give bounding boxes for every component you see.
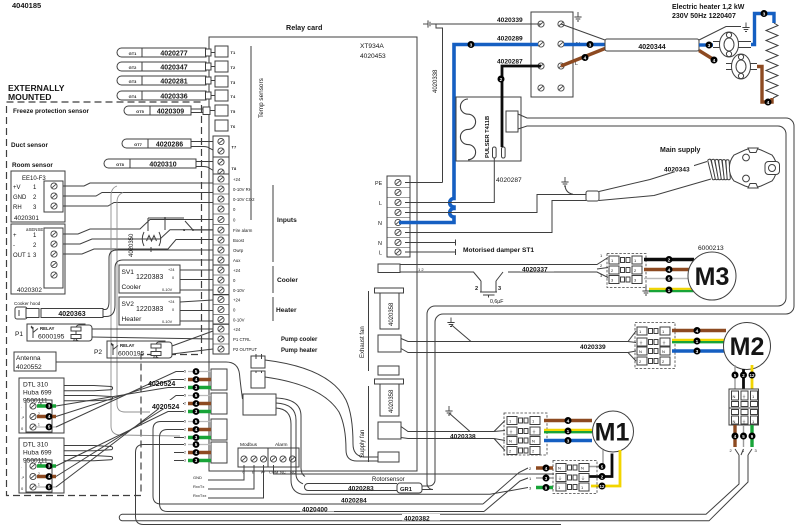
- svg-text:Cooker hood: Cooker hood: [14, 301, 41, 306]
- spare connector supply: [378, 452, 399, 462]
- svg-text:1220383: 1220383: [136, 274, 163, 281]
- temp sensor GT3: [117, 76, 206, 85]
- svg-text:4020336: 4020336: [160, 93, 187, 100]
- svg-text:4: 4: [195, 401, 198, 406]
- rotor connector GR1 on card: [243, 394, 276, 415]
- cable 4020344: [538, 24, 605, 66]
- svg-text:DTL 310: DTL 310: [23, 442, 48, 449]
- cable 4020358 supply: [375, 379, 404, 384]
- M2 motor circle: [724, 323, 771, 370]
- pressure input connector C4: [211, 442, 227, 463]
- svg-text:+24: +24: [168, 300, 174, 304]
- svg-text:Pump heater: Pump heater: [281, 348, 318, 354]
- svg-text:4020338: 4020338: [433, 69, 439, 93]
- svg-text:GR1: GR1: [400, 487, 413, 493]
- svg-text:P2 OUTPUT: P2 OUTPUT: [233, 347, 257, 352]
- svg-text:GT8: GT8: [116, 162, 125, 167]
- wire aSENSE 2: [63, 230, 213, 244]
- svg-text:⏚: ⏚: [742, 393, 746, 399]
- harness 4020524 DTL1 to C1: [146, 377, 179, 386]
- svg-text:4020309: 4020309: [157, 108, 184, 115]
- svg-text:3: 3: [48, 464, 51, 469]
- harness 4020524 DTL2 to C2: [56, 396, 184, 488]
- M2 rotor wires down: [734, 365, 736, 389]
- svg-text:4: 4: [48, 414, 51, 419]
- pressure input connector C1: [211, 369, 227, 390]
- temp sensor GT2: [117, 62, 206, 71]
- cable 4020400: [300, 505, 334, 512]
- svg-text:SV2: SV2: [122, 301, 135, 308]
- alarm wire to M1 sensor connector: [274, 465, 555, 474]
- svg-text:0: 0: [172, 308, 174, 312]
- pulser cable loop to GR1 plug: [422, 114, 794, 486]
- svg-text:3: 3: [589, 43, 592, 49]
- svg-text:Room sensor: Room sensor: [12, 162, 53, 169]
- svg-text:Pump cooler: Pump cooler: [281, 337, 318, 343]
- svg-text:N: N: [662, 349, 665, 354]
- svg-text:3: 3: [498, 286, 501, 292]
- pulser pins: [493, 147, 497, 158]
- svg-text:230V 50Hz 1220407: 230V 50Hz 1220407: [672, 13, 736, 20]
- svg-text:Supply fan: Supply fan: [360, 430, 366, 458]
- M3 motor circle: [688, 252, 736, 300]
- harness verticals: [111, 186, 180, 436]
- black cable 4020287: [502, 66, 541, 147]
- svg-text:T4: T4: [231, 94, 236, 99]
- svg-text:0-10V CO2: 0-10V CO2: [233, 197, 255, 202]
- heating element: [766, 23, 778, 98]
- heater supply terminal block: [531, 12, 573, 97]
- svg-text:3: 3: [184, 459, 186, 463]
- svg-text:2: 2: [184, 378, 186, 382]
- exhaust fan cable 4020339: [401, 331, 636, 361]
- svg-text:4: 4: [696, 329, 699, 335]
- svg-text:1 2: 1 2: [418, 267, 424, 272]
- svg-text:2: 2: [475, 286, 478, 292]
- svg-text:-: -: [13, 243, 15, 249]
- pulser left pin wire to L: [405, 158, 494, 203]
- svg-text:⏚: ⏚: [742, 418, 746, 424]
- svg-text:3: 3: [184, 386, 186, 390]
- svg-text:3: 3: [48, 404, 51, 409]
- supply fan cable 4020338: [401, 421, 505, 451]
- relay card: [209, 37, 417, 471]
- pressure input connector C2: [211, 393, 227, 414]
- svg-text:Electric heater 1,2 kW: Electric heater 1,2 kW: [672, 4, 745, 11]
- svg-text:2: 2: [184, 451, 186, 455]
- ground supply cable: [445, 406, 452, 415]
- pressure input connector C3: [211, 419, 227, 440]
- svg-text:2: 2: [184, 428, 186, 432]
- heater bracket: [272, 297, 274, 321]
- prongs to 4020382: [735, 449, 752, 455]
- svg-text:RELAY: RELAY: [120, 343, 135, 348]
- svg-text:5: 5: [48, 485, 51, 490]
- svg-text:0-10V: 0-10V: [233, 288, 245, 293]
- svg-text:Huba 699: Huba 699: [23, 450, 52, 457]
- svg-text:1: 1: [38, 423, 40, 427]
- temp sensors bracket: [250, 46, 252, 130]
- svg-text:2: 2: [668, 258, 671, 264]
- svg-text:4: 4: [584, 56, 587, 62]
- svg-text:GT3: GT3: [129, 79, 138, 84]
- svg-text:2: 2: [500, 77, 503, 83]
- svg-text:12: 12: [600, 484, 605, 489]
- svg-text:4020277: 4020277: [160, 50, 187, 57]
- pressure sensor DTL 1: [19, 378, 64, 433]
- svg-text:+24: +24: [233, 327, 241, 332]
- svg-text:5: 5: [195, 442, 198, 447]
- svg-text:M1: M1: [595, 419, 630, 447]
- solenoid SV1 cooler: [119, 265, 180, 293]
- svg-text:N: N: [558, 466, 561, 471]
- M2 colored wires: [672, 329, 726, 333]
- svg-text:N: N: [639, 349, 642, 354]
- svg-text:4020524: 4020524: [152, 404, 179, 411]
- svg-text:Alarm: Alarm: [275, 442, 288, 448]
- svg-text:5: 5: [668, 277, 671, 283]
- svg-text:SV1: SV1: [122, 269, 135, 276]
- svg-text:Inputs: Inputs: [277, 217, 297, 224]
- svg-text:3: 3: [184, 436, 186, 440]
- svg-text:5: 5: [184, 394, 186, 398]
- svg-text:RxxTx: RxxTx: [193, 484, 204, 489]
- svg-text:1: 1: [696, 339, 699, 345]
- svg-text:XT934A: XT934A: [360, 43, 384, 50]
- supply fan bracket: [368, 386, 370, 462]
- svg-text:+24: +24: [233, 177, 241, 182]
- cable 4020283: [305, 484, 397, 491]
- svg-text:P1: P1: [15, 331, 23, 338]
- svg-text:GND: GND: [193, 475, 202, 480]
- svg-text:5: 5: [184, 370, 186, 374]
- svg-text:Freeze protection sensor: Freeze protection sensor: [13, 108, 90, 115]
- svg-text:↗: ↗: [21, 415, 24, 420]
- temp sensor GT5: [124, 106, 191, 115]
- svg-text:Duct sensor: Duct sensor: [11, 142, 48, 149]
- svg-text:Boost: Boost: [233, 238, 245, 243]
- svg-text:4: 4: [567, 419, 570, 425]
- svg-text:4020284: 4020284: [341, 498, 367, 505]
- svg-text:4: 4: [668, 268, 671, 274]
- cooler bracket: [272, 266, 274, 293]
- wires out of 4020344: [699, 27, 741, 41]
- svg-text:T6: T6: [231, 124, 236, 129]
- blue wire to element top: [751, 14, 774, 45]
- svg-text:GT7: GT7: [134, 142, 143, 147]
- svg-text:4020287: 4020287: [497, 59, 523, 66]
- svg-text:9500111: 9500111: [23, 458, 48, 465]
- svg-text:4020358: 4020358: [389, 302, 395, 326]
- svg-text:+24: +24: [168, 268, 174, 272]
- svg-text:4020339: 4020339: [580, 344, 606, 351]
- svg-text:4020343: 4020343: [664, 167, 690, 174]
- screw terminal strip T7,T8 and inputs: [213, 136, 229, 157]
- svg-text:0-10V: 0-10V: [162, 320, 173, 324]
- modbus pigtails GND/RxTx: [207, 465, 264, 498]
- svg-text:4020289: 4020289: [497, 36, 523, 43]
- svg-text:Modbus: Modbus: [240, 442, 258, 448]
- svg-text:Owrp: Owrp: [233, 248, 244, 253]
- svg-text:DTL 310: DTL 310: [23, 382, 48, 389]
- pump output connectors: [251, 356, 265, 368]
- svg-text:4020400: 4020400: [302, 507, 328, 514]
- thermostat 1: [713, 42, 751, 48]
- cable to plug: [599, 162, 711, 201]
- PE L N terminal block: [387, 176, 410, 257]
- svg-text:Huba 699: Huba 699: [23, 390, 52, 397]
- svg-text:4: 4: [195, 377, 198, 382]
- svg-text:4020358: 4020358: [389, 389, 395, 413]
- fire alarm switch: [185, 221, 214, 231]
- svg-text:4020453: 4020453: [360, 53, 386, 60]
- svg-text:5: 5: [195, 369, 198, 374]
- svg-text:1: 1: [668, 288, 671, 294]
- M3 wires: [644, 258, 694, 261]
- svg-text:⏚: ⏚: [662, 339, 666, 345]
- svg-text:GT4: GT4: [129, 94, 138, 99]
- M1 motor circle: [593, 411, 634, 452]
- svg-text:⏚: ⏚: [581, 475, 585, 481]
- svg-text:3: 3: [195, 409, 198, 414]
- svg-text:1: 1: [38, 483, 40, 487]
- svg-text:4: 4: [767, 100, 770, 106]
- plug GR1: [397, 483, 422, 493]
- svg-text:.: .: [21, 464, 22, 469]
- aSENSE CO2 sensor: [11, 224, 65, 294]
- svg-text:4020344: 4020344: [638, 44, 665, 51]
- wire GT3-T3: [206, 80, 215, 82]
- svg-text:4020286: 4020286: [156, 141, 183, 148]
- damper motor connector: [607, 254, 646, 288]
- svg-text:3: 3: [470, 43, 473, 49]
- wiring around fire alarm: [148, 218, 184, 252]
- svg-text:6000195: 6000195: [38, 334, 65, 341]
- svg-text:Heater: Heater: [122, 316, 143, 323]
- svg-text:4020283: 4020283: [348, 486, 374, 493]
- svg-text:3: 3: [763, 12, 766, 18]
- svg-text:4: 4: [48, 474, 51, 479]
- brown wire to element bottom: [757, 67, 772, 103]
- pressure sensor DTL 2: [19, 438, 64, 493]
- svg-text:4020337: 4020337: [522, 267, 548, 274]
- svg-text:Relay card: Relay card: [286, 23, 322, 32]
- antenna box: [14, 352, 56, 371]
- svg-text:0: 0: [172, 276, 174, 280]
- svg-text:Rotorsensor: Rotorsensor: [372, 477, 405, 483]
- wire 4020284: [309, 488, 528, 495]
- wires to pump connectors: [256, 354, 262, 373]
- terminal squares T1-T6: [215, 46, 228, 57]
- svg-text:M3: M3: [695, 263, 730, 291]
- blue neutral wire 4020289: [399, 45, 538, 223]
- svg-text:3: 3: [195, 435, 198, 440]
- cable 4020358 exhaust: [375, 288, 404, 293]
- svg-text:Cooler: Cooler: [277, 277, 298, 284]
- main supply cable wires to block: [405, 195, 586, 213]
- ground symbol top: [423, 20, 432, 27]
- svg-text:N: N: [581, 466, 584, 471]
- svg-text:4040185: 4040185: [12, 1, 41, 10]
- svg-text:Main supply: Main supply: [660, 147, 701, 154]
- svg-text:MOUNTED: MOUNTED: [8, 92, 51, 102]
- svg-text:T5: T5: [231, 109, 236, 114]
- svg-text:⏚: ⏚: [509, 428, 513, 434]
- svg-text:4020338: 4020338: [450, 433, 476, 440]
- svg-text:T2: T2: [231, 65, 236, 70]
- svg-text:T3: T3: [231, 80, 236, 85]
- svg-text:⏚: ⏚: [639, 339, 643, 345]
- svg-text:T8: T8: [232, 166, 237, 171]
- temp sensor GT8: [104, 159, 196, 168]
- wires SV1: [180, 270, 213, 290]
- svg-text:+24: +24: [233, 268, 241, 273]
- svg-text:4020301: 4020301: [14, 215, 39, 222]
- svg-text:3: 3: [184, 410, 186, 414]
- svg-text:N: N: [378, 241, 382, 247]
- thermostat wavy symbol: [142, 232, 161, 246]
- svg-text:N: N: [532, 439, 535, 444]
- temp sensor GT7: [122, 139, 191, 148]
- rotor sensor PULSER T411B: [456, 97, 521, 161]
- svg-text:9500111: 9500111: [23, 398, 48, 405]
- svg-text:+V: +V: [13, 185, 21, 191]
- svg-text:5: 5: [184, 443, 186, 447]
- svg-text:Cooler: Cooler: [122, 284, 142, 291]
- svg-text:0-10V: 0-10V: [233, 317, 245, 322]
- wires P1: [92, 329, 213, 339]
- svg-text:↗: ↗: [21, 475, 24, 480]
- svg-text:EE10-F3: EE10-F3: [22, 176, 46, 182]
- wires GR1 to rotorsensor cable: [276, 398, 309, 494]
- svg-text:4020281: 4020281: [160, 78, 187, 85]
- supply fan connector: [378, 422, 401, 439]
- pump cables curving to supply area: [265, 360, 378, 461]
- wires P2: [172, 331, 213, 354]
- svg-text:T7: T7: [232, 145, 237, 150]
- svg-text:GT1: GT1: [129, 51, 138, 56]
- svg-text:T1: T1: [231, 50, 236, 55]
- inputs bracket: [272, 185, 274, 262]
- svg-text:3: 3: [567, 439, 570, 445]
- risers to M1 sensor plug: [483, 468, 528, 512]
- svg-text:12: 12: [750, 373, 755, 378]
- svg-text:PE: PE: [375, 181, 383, 187]
- svg-text:+: +: [13, 233, 17, 239]
- wire EE10 +V to +24: [63, 183, 213, 186]
- ground exhaust cable: [447, 318, 454, 327]
- wire GT4-T4: [206, 95, 215, 97]
- solenoid SV2 heater: [119, 297, 180, 325]
- svg-text:P2: P2: [94, 349, 102, 356]
- svg-text:5: 5: [195, 393, 198, 398]
- svg-text:PULSER T411B: PULSER T411B: [485, 116, 491, 158]
- motorised damper wires N/L: [405, 240, 456, 256]
- wire aSENSE 1: [63, 220, 213, 235]
- spare connector exhaust: [378, 366, 399, 375]
- svg-text:GND: GND: [13, 195, 27, 201]
- exhaust fan connector: [378, 335, 401, 352]
- svg-text:aSENSE: aSENSE: [26, 227, 43, 232]
- svg-text:4020524: 4020524: [148, 381, 175, 388]
- wire cooker hood to Owrp/Aux: [103, 250, 213, 310]
- schuko plug: [729, 148, 776, 187]
- svg-text:3: 3: [195, 458, 198, 463]
- svg-text:GT2: GT2: [129, 65, 138, 70]
- wire 4020339 ground to block: [433, 23, 538, 25]
- svg-text:⏚: ⏚: [558, 475, 562, 481]
- svg-text:3: 3: [696, 349, 699, 355]
- svg-text:0-10V: 0-10V: [162, 288, 173, 292]
- svg-text:4020552: 4020552: [16, 364, 42, 371]
- svg-text:4: 4: [713, 58, 716, 64]
- svg-text:5: 5: [48, 425, 51, 430]
- svg-text:2: 2: [184, 402, 186, 406]
- temp sensor GT4: [117, 91, 206, 100]
- wire EE10 GND: [63, 193, 213, 197]
- svg-text:Fire alarm: Fire alarm: [233, 228, 253, 233]
- wires C3/C4 loop to bottom cables: [153, 422, 483, 505]
- svg-text:Antenna: Antenna: [16, 355, 41, 362]
- svg-text:N: N: [509, 439, 512, 444]
- svg-text:P1 CTRL: P1 CTRL: [233, 337, 251, 342]
- M1 rotor wires: [589, 450, 603, 467]
- svg-text:RELAY: RELAY: [40, 326, 55, 331]
- svg-text:N: N: [733, 419, 736, 424]
- svg-text:5: 5: [195, 419, 198, 424]
- svg-text:Aux: Aux: [233, 258, 241, 263]
- svg-text:L: L: [379, 201, 382, 207]
- antenna wire: [56, 362, 243, 399]
- svg-text:Motorised damper ST1: Motorised damper ST1: [463, 247, 534, 254]
- svg-text:N: N: [733, 394, 736, 399]
- svg-text:6000195: 6000195: [118, 351, 145, 358]
- svg-text:Exhaust fan: Exhaust fan: [360, 326, 366, 358]
- svg-text:4020287: 4020287: [496, 177, 522, 184]
- svg-text:L: L: [379, 251, 382, 257]
- svg-text:4: 4: [195, 450, 198, 455]
- svg-text:M2: M2: [730, 333, 765, 361]
- svg-text:4020382: 4020382: [404, 516, 430, 523]
- svg-text:Heater: Heater: [276, 307, 297, 314]
- M2 stack lower wires: [733, 425, 736, 447]
- svg-text:4: 4: [195, 427, 198, 432]
- svg-text:4020350: 4020350: [129, 233, 135, 257]
- svg-text:3: 3: [195, 385, 198, 390]
- wires SV2: [180, 300, 213, 321]
- svg-text:⏚: ⏚: [532, 428, 536, 434]
- svg-text:4020310: 4020310: [149, 161, 176, 168]
- cable 4020337: [378, 264, 400, 273]
- svg-text:1: 1: [567, 429, 570, 435]
- svg-text:OUT 1: OUT 1: [13, 253, 31, 259]
- svg-text:0-10V RH: 0-10V RH: [233, 187, 252, 192]
- wire GT1-T1: [206, 52, 215, 54]
- exhaust fan bracket: [368, 291, 370, 371]
- svg-text:1220383: 1220383: [136, 306, 163, 313]
- svg-text:+24: +24: [233, 297, 241, 302]
- svg-text:.: .: [21, 404, 22, 409]
- svg-text:4020339: 4020339: [497, 17, 523, 24]
- svg-text:3: 3: [708, 43, 711, 49]
- wire EE10 RH: [63, 203, 213, 207]
- cable connector: [586, 191, 599, 201]
- thermostat 2: [726, 64, 757, 70]
- wire aSENSE 3: [63, 240, 213, 255]
- M1 colored wires: [544, 419, 592, 423]
- svg-text:RxxTxx: RxxTxx: [193, 493, 206, 498]
- capacitor 0,6uF: [481, 272, 503, 292]
